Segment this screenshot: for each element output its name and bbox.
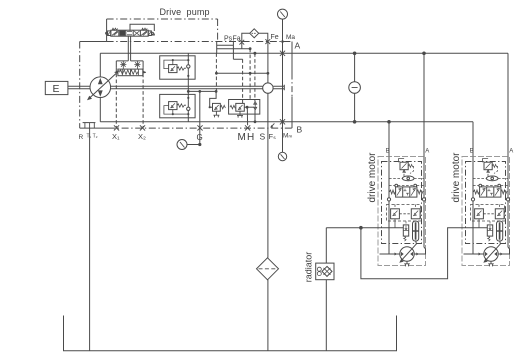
case drain ports R T1 T2 [83, 123, 96, 129]
pump envelope (dash-dot boundary) [80, 42, 292, 129]
svg-text:Fₛ: Fₛ [269, 132, 277, 141]
pressure control valve 2 (with box) [229, 100, 260, 126]
crossport relief valve left [391, 205, 400, 228]
wire: motor B line internal [388, 157, 390, 255]
engine box E [45, 81, 68, 95]
svg-text:B: B [297, 125, 303, 135]
port Fe [265, 39, 270, 44]
svg-text:X₂: X₂ [138, 132, 146, 141]
relief valve cartridge box 1 (A side) [160, 53, 195, 91]
charge pump (gerotor) [263, 83, 273, 93]
pilot control valve box (dash-dot) [107, 19, 218, 42]
tank [64, 316, 397, 351]
filter (charge circuit, top) [242, 29, 268, 42]
crossport relief valve right [399, 205, 420, 219]
svg-text:A: A [295, 41, 301, 51]
svg-text:R: R [79, 134, 84, 141]
svg-text:S: S [260, 132, 266, 142]
variable displacement motor M [380, 241, 420, 263]
wire: Ps port branch [217, 42, 243, 60]
wire: pilot lines from valve to servo [128, 36, 130, 61]
svg-text:drive motor: drive motor [367, 152, 378, 203]
port MH [245, 125, 250, 130]
wire: gallery y=73.3 [216, 72, 268, 74]
servo nozzle X right [134, 62, 140, 66]
wire: filter to tank [267, 280, 269, 351]
svg-text:X₁: X₁ [112, 132, 120, 141]
svg-text:Fe: Fe [271, 34, 279, 41]
motor case drain symbol [404, 261, 410, 266]
wire: B line to motor 1 [388, 122, 390, 157]
line ports on B/A [387, 198, 390, 201]
pressure gauge MA (bottom) [278, 152, 286, 160]
wire: dashed pilot X1 [115, 68, 117, 128]
shuttle valve [389, 170, 424, 181]
counterbalance directional valve [389, 187, 423, 197]
pressure reducing valve 1 [209, 91, 226, 117]
wire: A-line dashed pilot to arrow symbol [254, 53, 256, 101]
wire: A main line [100, 52, 508, 54]
wire: drain header to radiator [326, 227, 378, 229]
motor assembly outer boundary (gray dashed) [378, 157, 426, 266]
wire: charge pump suction/delivery line [267, 42, 269, 258]
svg-text:E: E [53, 83, 60, 95]
wire: G port line [199, 91, 201, 144]
motor valve block boundary (dash-dot) [382, 162, 422, 244]
wire: B line to motor 2 [472, 122, 474, 157]
svg-text:B: B [386, 149, 390, 155]
port MA on B line [280, 119, 285, 124]
pilot valve springs [112, 28, 118, 30]
wire: B main line [100, 121, 473, 123]
wire: A line to motor 2 [507, 53, 509, 156]
svg-text:A: A [425, 149, 429, 155]
wire: charge gallery y=91.4 [188, 90, 216, 92]
pilot valve solenoid left [106, 31, 111, 36]
wire: Fa branch [217, 42, 250, 49]
relief sub-block (dashed) [387, 205, 421, 222]
wire: valve2 outlet to B line [254, 110, 256, 122]
svg-text:T₁ T₂: T₁ T₂ [87, 134, 98, 140]
wire: dashed pilot X2 [142, 68, 144, 128]
relief valve cartridge box 2 (B side) [160, 91, 195, 121]
wire: A line to motor 1 [423, 53, 425, 156]
return filter [257, 258, 279, 280]
drive motor 2 [451, 149, 513, 267]
wire: motor A line internal [414, 157, 426, 255]
pilot ports [395, 184, 398, 187]
wire: case drain to tank [89, 128, 91, 351]
wire: drain loop under motor 1 [361, 228, 462, 279]
two-speed stroke piston [413, 221, 419, 241]
variable displacement pump P [90, 53, 111, 122]
bidirectional arrow symbol at valve 2 outlet [254, 102, 257, 110]
flushing shift valve [399, 159, 414, 174]
servo nozzle X left [120, 62, 126, 66]
pilot valve feedback linkage [130, 24, 154, 35]
port X2 [140, 125, 145, 130]
wire: case flushing drain [378, 227, 403, 229]
port Fa [239, 40, 244, 45]
pressure gauge Ma (top) [278, 9, 288, 19]
proportional pilot valve body [111, 30, 148, 36]
svg-text:Mₘ: Mₘ [283, 133, 292, 140]
pilot valve solenoid right [148, 31, 153, 36]
wire: dashed pilot from A-line to valve1 [215, 53, 217, 91]
radiator with fan [316, 263, 334, 280]
port Ma on A line [280, 51, 285, 56]
wire: Ma measuring line [282, 19, 284, 152]
flushing sensor between A and B [349, 53, 361, 122]
port X1 [114, 125, 119, 130]
svg-text:Drive pump: Drive pump [160, 7, 210, 17]
port Fs external pilot arrow [270, 123, 274, 127]
wire: drive shaft (double line) [68, 86, 263, 88]
svg-text:radiator: radiator [304, 252, 314, 283]
port G [197, 125, 202, 130]
svg-text:MH: MH [238, 132, 256, 143]
pump variable-control arrow / servo link [87, 70, 119, 100]
wire: radiator line to tank [325, 228, 327, 351]
wire: shaft stub right of charge pump [273, 85, 284, 91]
gauge at G [177, 140, 187, 150]
servo / stroking cylinder [114, 61, 146, 76]
wire: Ps dashed pilot down to valve2 [242, 59, 244, 103]
drive motor 1 [367, 149, 429, 267]
wire: Fa dashed pilot [249, 49, 251, 99]
two-speed shift valve [403, 221, 408, 241]
